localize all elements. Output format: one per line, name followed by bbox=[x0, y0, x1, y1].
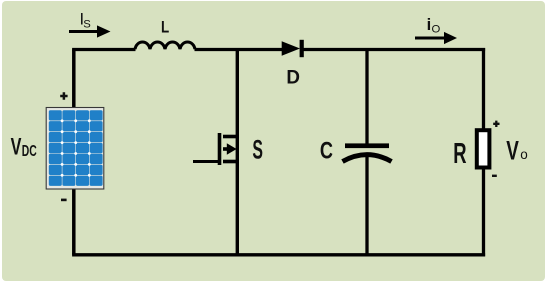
wire bottom rail bbox=[72, 253, 485, 256]
wire mosfet drain-source vertical bbox=[236, 50, 239, 255]
svg-text:R: R bbox=[453, 138, 466, 170]
svg-text:DC: DC bbox=[22, 143, 37, 160]
inductor L bbox=[135, 42, 195, 49]
capacitor C bbox=[343, 143, 392, 161]
label S bbox=[252, 134, 263, 164]
wire right rail lower bbox=[482, 168, 485, 256]
transistor S (MOSFET) bbox=[193, 133, 239, 165]
label iO bbox=[427, 16, 441, 35]
svg-text:C: C bbox=[320, 137, 333, 164]
label IS bbox=[80, 11, 92, 31]
svg-text:S: S bbox=[83, 18, 91, 30]
svg-text:O: O bbox=[432, 23, 441, 35]
current arrow iO bbox=[415, 32, 457, 44]
wire capacitor branch upper bbox=[365, 48, 368, 144]
solar panel VDC bbox=[46, 108, 104, 190]
label L bbox=[161, 18, 169, 36]
wire top rail right segment bbox=[303, 48, 485, 51]
label minus panel bbox=[61, 199, 67, 202]
wire right rail upper bbox=[482, 48, 485, 131]
svg-text:L: L bbox=[161, 18, 169, 36]
label C bbox=[320, 137, 333, 164]
label plus resistor bbox=[493, 121, 499, 127]
wire left rail bbox=[72, 50, 76, 255]
label D bbox=[286, 67, 300, 89]
label VDC bbox=[11, 133, 37, 160]
svg-text:D: D bbox=[286, 67, 300, 89]
label Vo bbox=[506, 136, 528, 166]
label R bbox=[453, 138, 466, 170]
label minus resistor bbox=[492, 175, 497, 177]
current arrow IS bbox=[69, 25, 111, 37]
wire top rail left segment bbox=[72, 48, 135, 51]
svg-text:V: V bbox=[506, 136, 519, 166]
resistor R bbox=[477, 130, 490, 167]
svg-text:i: i bbox=[427, 16, 432, 34]
svg-text:S: S bbox=[252, 134, 263, 164]
wire top rail middle segment bbox=[195, 48, 284, 51]
wire capacitor branch lower bbox=[365, 155, 368, 255]
svg-text:o: o bbox=[520, 147, 528, 162]
diode D bbox=[282, 40, 304, 57]
svg-text:V: V bbox=[11, 133, 22, 160]
label plus panel bbox=[60, 92, 67, 99]
